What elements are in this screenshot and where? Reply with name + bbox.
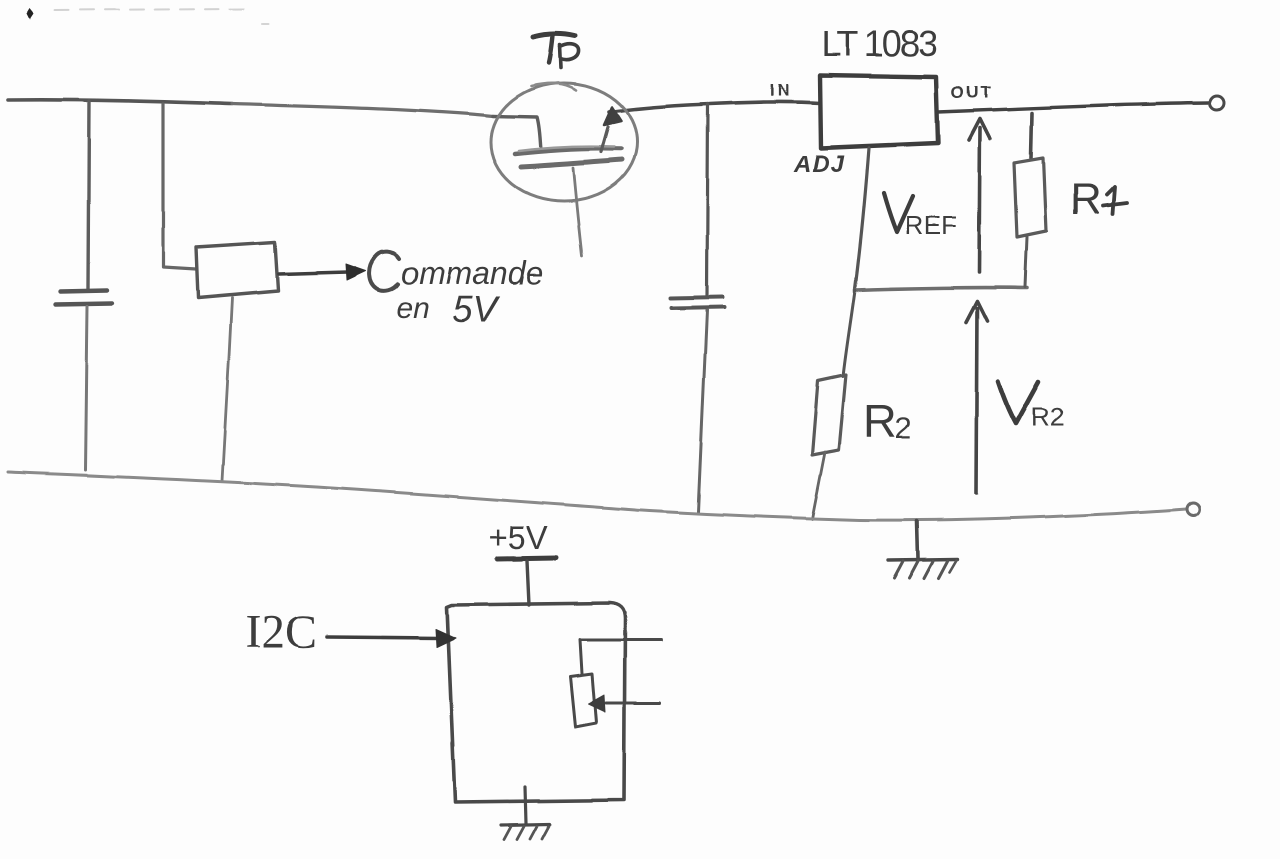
svg-text:I2C: I2C: [245, 606, 317, 659]
svg-text:+5V: +5V: [488, 519, 548, 556]
svg-text:R2: R2: [1031, 402, 1064, 432]
svg-text:2: 2: [894, 412, 911, 445]
svg-text:LT 1083: LT 1083: [821, 23, 937, 64]
svg-text:ommande: ommande: [401, 255, 543, 291]
svg-text:5V: 5V: [452, 289, 501, 330]
svg-text:R: R: [1070, 175, 1102, 224]
svg-text:OUT: OUT: [951, 83, 993, 102]
svg-text:en: en: [396, 292, 429, 325]
svg-text:REF: REF: [905, 210, 957, 240]
svg-text:IN: IN: [770, 81, 793, 100]
svg-text:R: R: [863, 395, 896, 447]
svg-text:ADJ: ADJ: [793, 151, 845, 178]
